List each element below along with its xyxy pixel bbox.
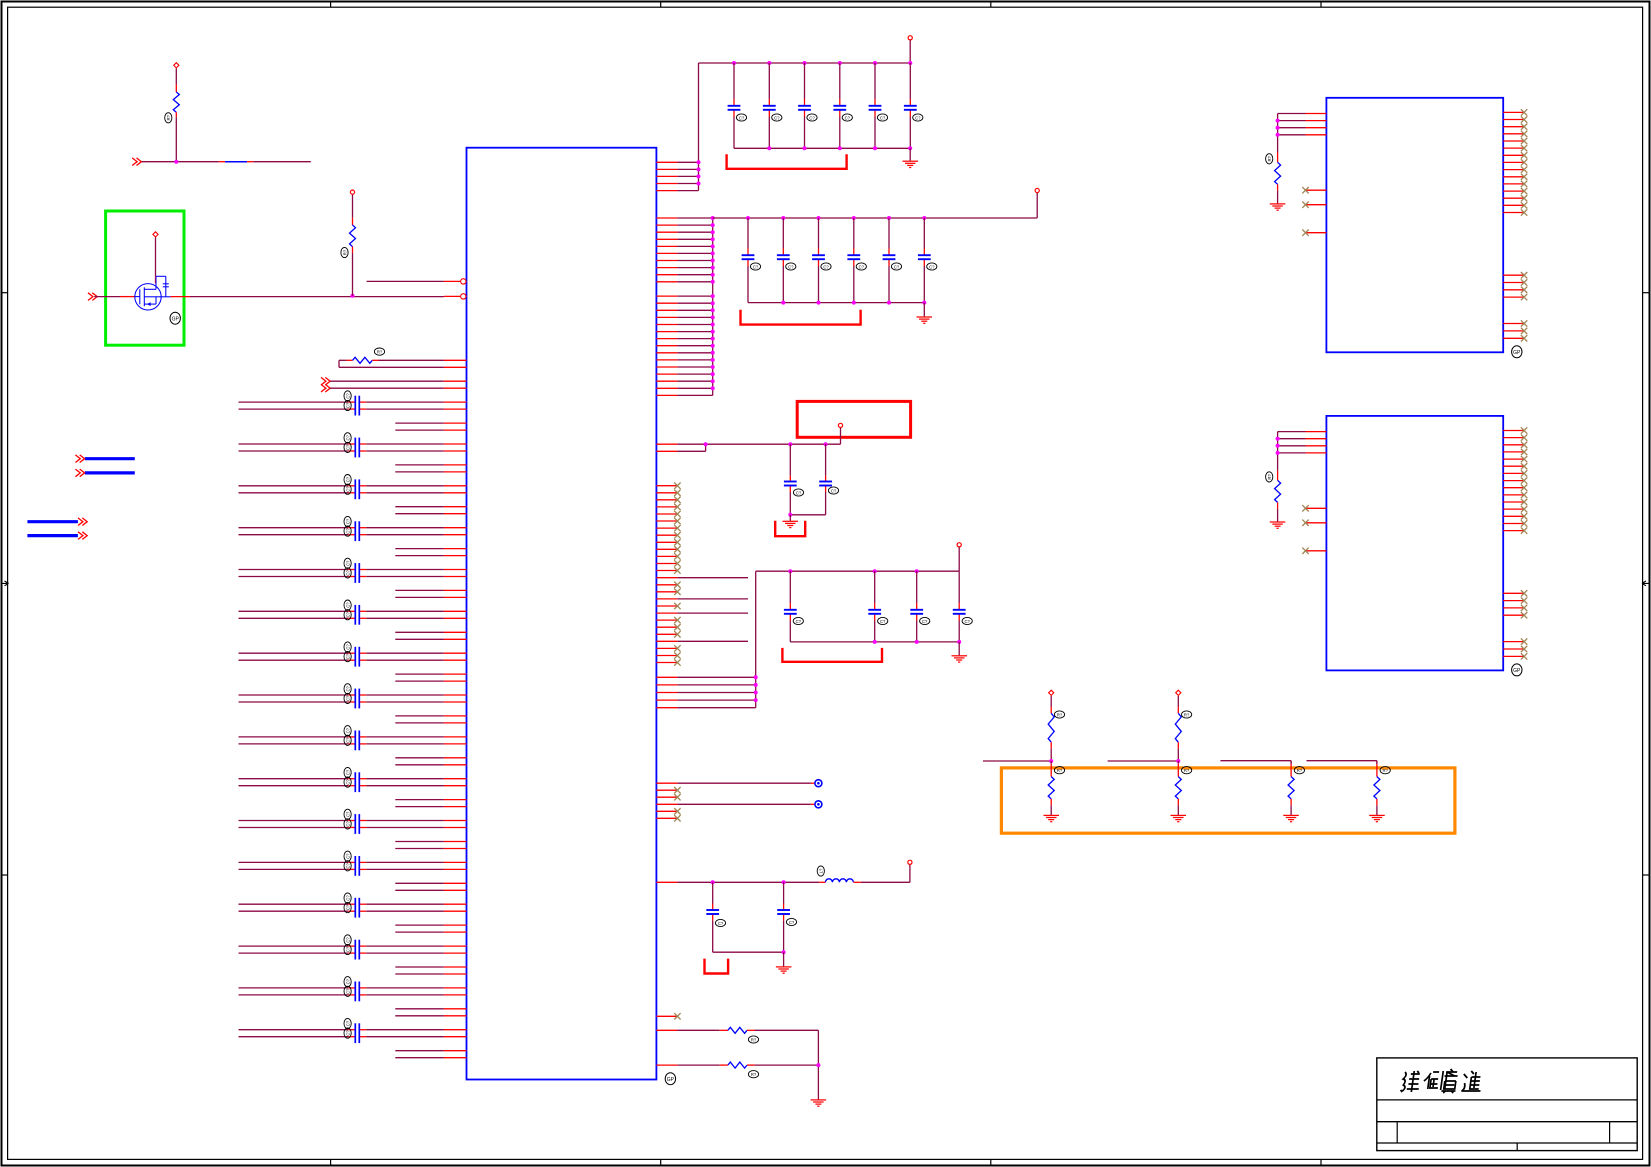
resistor R7 lead bottom [1277,502,1279,508]
capacitor C31+4 (bank1) [869,105,882,107]
svg-text:C?: C? [845,115,851,120]
capacitor C27/C28 plates [354,982,356,1002]
svg-text:R?: R? [751,1037,757,1042]
ground (bank2) [917,316,933,318]
capacitor C45+2 (bank3) [910,609,923,611]
svg-text:C?: C? [345,611,350,617]
resistor R13 label [1380,767,1390,774]
inductor L1 [825,879,853,882]
resistor R10 lead bottom [1050,799,1052,805]
svg-text:C?: C? [345,402,350,408]
ground (R13) [1369,814,1385,816]
bus to cap bank 3 [755,571,757,708]
svg-text:R?: R? [1297,768,1303,773]
capacitor C43 wire [789,444,791,476]
capacitor C43 label [793,489,803,496]
U1 right pins group G [656,782,677,784]
svg-text:R?: R? [1057,712,1063,717]
capacitor C5 label [344,516,351,526]
junction R3 [816,1063,820,1067]
IC U2 left bus junctions [1276,119,1280,123]
capacitor C8 label [344,568,351,578]
U1 stub wire pair [395,1008,444,1010]
svg-text:C?: C? [345,560,350,566]
IC U2 body [1326,98,1503,352]
svg-text:C?: C? [345,895,350,901]
U1 right no-connect pin [656,1015,677,1017]
net port chevron B [321,384,326,392]
IC U3 left no-connect pins [1306,507,1327,509]
svg-text:C?: C? [345,1030,350,1036]
net port chevron D [88,293,93,301]
svg-text:C?: C? [739,115,745,120]
bus port chevron 2 [75,469,80,477]
svg-text:GP: GP [172,316,180,322]
svg-text:C?: C? [774,115,780,120]
junctions group A [697,160,701,164]
capacitor C45+3 (bank3) [953,609,966,611]
capacitor C-1 label [344,391,351,401]
capacitor C3 wire (upper) [239,485,349,487]
power symbol VREF [838,423,842,427]
capacitor C37+4 (bank2) [883,254,896,256]
ground (R7) [1270,521,1286,523]
port symbol P1 [815,780,822,787]
capacitor C37+0 label [750,263,760,270]
wire VREF down [840,428,842,444]
capacitor C20 wire (lower) [239,827,349,829]
wire bank2 to ground [923,303,925,317]
svg-text:C?: C? [880,619,886,624]
capacitor C9 wire (upper) [239,610,349,612]
U1 right pins group B [656,217,677,219]
wire with net label segment [142,161,219,163]
IC U3 left bus junctions [1276,437,1280,441]
capacitor C37+2 (bank2) [812,254,825,256]
svg-text:C?: C? [345,518,350,524]
capacitor C5/C6 plates [354,521,356,541]
title block row line 1 [1377,1099,1637,1101]
wire from port B [330,387,444,389]
junction C50 bottom [782,950,786,954]
frame right center arrow [1642,576,1650,590]
capacitor C24 wire (lower) [239,910,349,912]
capacitor C37+2 label [821,263,831,270]
capacitor C31+3 (bank1) [833,105,846,107]
resistor R3 label [748,1071,758,1078]
capacitor C10 wire (lower) [239,617,349,619]
transistor Q1 (MOSFET) [135,284,161,310]
resistor R8 lead [1050,742,1052,749]
capacitor C31+0 label [736,114,746,121]
resistor R9 lead [1177,742,1179,749]
cap bank 3 top junctions [788,569,792,573]
capacitor C45+3 label [962,617,972,624]
svg-text:C?: C? [345,602,350,608]
svg-text:C?: C? [345,486,350,492]
U1 right pin VREF2 [656,450,677,452]
capacitor C49 label [715,919,725,926]
cap bank 1 column wires [733,63,735,99]
capacitor C15 label [344,726,351,736]
capacitor C31+1 label [772,114,782,121]
cap bank 2 bottom junctions [781,301,785,305]
bus port chevron 3 [78,518,83,526]
cap bank 3 top rail [756,570,960,572]
capacitor C17/C18 plates [354,772,356,792]
capacitor C44 plates [819,481,832,483]
capacitor C29 wire (upper) [239,1029,349,1031]
capacitor C44 label [828,487,838,494]
svg-text:C?: C? [929,264,935,269]
U1 left bubble pin 1 wire [367,280,444,282]
bus port chevron 1 [75,455,80,463]
svg-text:C?: C? [345,695,350,701]
capacitor C11 label [344,642,351,652]
capacitor C4 wire (lower) [239,492,349,494]
svg-text:R?: R? [377,349,383,354]
svg-text:C?: C? [345,821,350,827]
svg-text:C?: C? [345,978,350,984]
svg-text:C?: C? [345,570,350,576]
resistor R7 lead top [1277,471,1279,481]
capacitor C19 wire (upper) [239,820,349,822]
wire loop below R1 [338,360,340,367]
junction R9 [1176,759,1180,763]
svg-text:C?: C? [345,737,350,743]
U1 stub wire pair [395,715,444,717]
svg-text:C?: C? [345,904,350,910]
capacitor C45+1 (bank3) [868,609,881,611]
capacitor C16 wire (lower) [239,743,349,745]
capacitor C21/C22 plates [354,856,356,876]
resistor R9 label [1182,711,1192,718]
IC U3 right pins group 1 [1503,430,1524,432]
wire VCC1 down [909,40,911,63]
resistor R10 label [1054,767,1064,774]
capacitor C9 label [344,600,351,610]
junction C43 bottom [788,513,792,517]
capacitor C0 wire (lower) [239,408,349,410]
resistor R6 label [1266,154,1273,164]
svg-text:C?: C? [831,488,837,493]
ground (C43/C44) [783,520,799,522]
svg-text:C?: C? [788,264,794,269]
capacitor C5 wire (upper) [239,527,349,529]
svg-text:C?: C? [345,644,350,650]
capacitor C12 label [344,652,351,662]
capacitor C11/C12 plates [354,647,356,667]
capacitor C8 wire (lower) [239,576,349,578]
svg-text:C?: C? [809,115,815,120]
svg-text:C?: C? [345,727,350,733]
resistor R2 label [748,1036,758,1043]
power symbol VCC3 [957,543,961,547]
svg-text:R?: R? [1383,768,1389,773]
svg-text:R?: R? [1184,712,1190,717]
red bracket under bank1 [727,154,847,169]
bus to cap bank 1 [698,63,700,191]
wire from port A [330,380,444,382]
orange highlight box [1001,768,1455,833]
resistor R10 lead top [1050,761,1052,764]
capacitor C14 label [344,693,351,703]
svg-text:C?: C? [880,115,886,120]
capacitor C18 label [344,777,351,787]
resistor R4 label [165,113,172,123]
svg-text:C?: C? [345,528,350,534]
inductor L1 lead left [819,881,825,883]
IC U3 left bus [1277,432,1279,471]
capacitor C21 label [344,851,351,861]
capacitor C9/C10 plates [354,605,356,625]
capacitor C37+1 (bank2) [777,254,790,256]
resistor R12 label [1294,767,1304,774]
bus stub 2 [85,471,135,474]
U1 right pins group A [656,161,677,163]
U1 right pin VREF1 [656,443,677,445]
resistor R7 label [1266,472,1273,482]
svg-text:R?: R? [342,249,347,255]
capacitor C19/C20 plates [354,814,356,834]
IC U3 left pins [1306,431,1327,433]
svg-text:C?: C? [345,1020,350,1026]
resistor R6 lead bottom [1277,184,1279,190]
wire stub to R13 [1307,760,1377,762]
IC U2 right pins group 2 [1503,274,1524,276]
svg-text:GP: GP [1513,350,1521,356]
capacitor C17 label [344,767,351,777]
capacitor C45+0 label [793,617,803,624]
U1 stub wire pair [395,589,444,591]
junctions group B [711,216,715,220]
net port chevron C [132,158,137,166]
green highlight box [106,211,184,345]
U1 right pins group E [656,577,677,579]
cap bank 3 bottom rail [790,641,959,643]
resistor R13 (pull-down) [1374,777,1380,799]
U1 stub wire pair [395,673,444,675]
svg-text:R?: R? [166,114,171,120]
svg-text:C?: C? [859,264,865,269]
svg-text:C?: C? [345,988,350,994]
wire VIN1 down [175,68,177,84]
ground (R2/R3) [811,1099,827,1101]
capacitor C16 label [344,735,351,745]
svg-text:C?: C? [345,653,350,659]
svg-text:C?: C? [965,619,971,624]
capacitor C12 wire (lower) [239,659,349,661]
cap bank 1 bottom junctions [767,146,771,150]
U1 stub wire pair [395,757,444,759]
capacitor C21 wire (upper) [239,861,349,863]
U1 stub wire pair [395,841,444,843]
inductor L1 lead right [853,881,861,883]
capacitor C26 label [344,944,351,954]
svg-text:R?: R? [751,1072,757,1077]
capacitor C3 label [344,475,351,485]
wire VP2 down [1177,696,1179,707]
IC U2 left no-connect pins [1306,189,1327,191]
svg-text:R?: R? [1267,474,1272,480]
capacitor C45+1 label [878,617,888,624]
resistor R1 label [374,348,384,355]
IC U3 right pins group 2 [1503,592,1524,594]
capacitor C25/C26 plates [354,940,356,960]
power symbol VCC1 [908,36,912,40]
capacitor C23 wire (upper) [239,903,349,905]
capacitor C31+4 label [877,114,887,121]
wire R2/R3 to ground [817,1030,819,1099]
resistor R11 lead bottom [1177,799,1179,805]
capacitor C1 label [344,433,351,443]
capacitor C7 label [344,558,351,568]
svg-text:C?: C? [823,264,829,269]
svg-text:C?: C? [345,862,350,868]
cap bank 1 bottom rail [734,147,910,149]
capacitor C31+3 label [842,114,852,121]
capacitor C0 label [344,400,351,410]
capacitor C13/C14 plates [354,689,356,709]
capacitor C6 label [344,526,351,536]
ground (R10) [1044,814,1060,816]
capacitor C37+4 label [891,263,901,270]
capacitor C15 wire (upper) [239,736,349,738]
svg-text:C?: C? [345,444,350,450]
wire VCC3 down [958,547,960,571]
capacitor C31+5 (bank1) [904,105,917,107]
junction C49 top [711,880,715,884]
junctions group F [754,675,758,679]
wire VCC2 down [1036,193,1038,218]
capacitor C19 label [344,809,351,819]
svg-text:C?: C? [345,779,350,785]
title text 緯創資通 (stylized) [1401,1072,1407,1091]
capacitor C1 wire (upper) [239,443,349,445]
capacitor C31+2 label [807,114,817,121]
capacitor C49 wire [712,882,714,903]
capacitor C28 label [344,986,351,996]
title block divider right [1609,1122,1611,1143]
junction C43 top [788,442,792,446]
U1 stub wire pair [395,1050,444,1052]
svg-text:C?: C? [915,115,921,120]
wire C43 to ground [789,515,791,521]
wire bank1 to ground [909,148,911,161]
resistor R1 (series, U1 pin row) [339,359,347,361]
IC U3 designator GP [1512,664,1522,676]
wire U1 to L1 [656,881,677,883]
svg-text:C?: C? [345,685,350,691]
IC U2 right pins group 3 [1503,323,1524,325]
capacitor C7/C8 plates [354,563,356,583]
capacitor C23/C24 plates [354,898,356,918]
capacitor C22 label [344,861,351,871]
resistor R2 (to ground) [656,1029,677,1031]
capacitor C4 label [344,484,351,494]
capacitor C6 wire (lower) [239,534,349,536]
capacitor C37+3 label [856,263,866,270]
IC U3 body [1326,416,1503,671]
U1 stub wire pair [395,799,444,801]
capacitor C13 label [344,684,351,694]
power symbol VCC2 [1035,188,1039,192]
wire Q1 drain to U1 [171,296,191,298]
capacitor C49 plates [706,909,719,911]
ground (R6) [1270,203,1286,205]
svg-text:C?: C? [345,946,350,952]
resistor R7 [1275,480,1281,502]
svg-text:C?: C? [753,264,759,269]
U1 left bubble pin 1 [444,280,461,282]
power symbol VP2 [1176,690,1181,695]
cap bank 2 top rail [713,217,925,219]
U1 right pins group F [656,676,677,678]
IC U1 designator GP [665,1073,675,1085]
capacitor C2 label [344,442,351,452]
inductor L1 label [817,866,824,876]
ground (bank1) [903,160,919,162]
capacitor C31+2 (bank1) [798,105,811,107]
capacitor C3/C4 plates [354,479,356,499]
capacitor C1/C2 plates [354,438,356,458]
capacitor C2 wire (lower) [239,450,349,452]
wire L1 to power [861,881,910,883]
red bracket around ground [775,521,805,536]
capacitor C29 label [344,1018,351,1028]
capacitor C44 wire [825,444,827,476]
red highlight box [797,401,910,437]
capacitor C22 wire (lower) [239,868,349,870]
svg-text:C?: C? [894,264,900,269]
svg-text:C?: C? [345,937,350,943]
capacitor C29/C30 plates [354,1023,356,1043]
title block outline [1377,1058,1637,1151]
wire stub to R12 [1220,760,1291,762]
capacitor C20 label [344,819,351,829]
capacitor C10 label [344,610,351,620]
U1 stub wire pair [395,464,444,466]
resistor R13 lead top [1376,761,1378,764]
resistor R3 (to ground) [656,1064,677,1066]
wire stub to R9 [1108,760,1179,762]
capacitor C25 wire (upper) [239,945,349,947]
bus port chevron 4 [78,532,83,540]
red bracket under bank3 [782,648,882,662]
svg-text:C?: C? [345,393,350,399]
resistor R12 lead top [1290,761,1292,764]
capacitor C28 wire (lower) [239,994,349,996]
cap bank 3 column wires [789,571,791,603]
svg-text:C?: C? [789,920,795,925]
U1 stub wire pair [395,631,444,633]
wire port to Q1 [94,296,120,298]
capacitor C43 plates [784,481,797,483]
svg-text:L?: L? [819,868,824,873]
wire C50 to ground [783,952,785,966]
U1 stub wire pair [395,882,444,884]
svg-text:R?: R? [1267,155,1272,161]
capacitor C31+0 (bank1) [728,105,741,107]
title block row line 2 [1377,1121,1637,1123]
capacitor C-1 wire (upper) [239,401,349,403]
IC U1 body [467,148,657,1080]
wire VR5 down [352,195,354,218]
capacitor C37+3 (bank2) [847,254,860,256]
capacitor C14 wire (lower) [239,701,349,703]
power symbol VP1 [1049,690,1054,695]
resistor R5 label [341,247,348,257]
